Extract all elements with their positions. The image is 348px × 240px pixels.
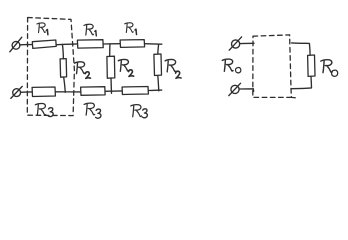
label R1 (section 1): [37, 23, 46, 33]
resistor R1 (section 3, top): [120, 40, 145, 48]
wire Ro bottom to box2: [291, 76, 311, 88]
label R3 (section 3): [131, 105, 142, 117]
wire R1b to R1c (top rail): [103, 43, 120, 45]
wire T4 to dashed box 2: [239, 89, 253, 92]
label R2 (section 1): [75, 62, 85, 74]
wire node B down to R2b: [109, 44, 111, 56]
terminal T4 (bottom-right input): [229, 83, 241, 95]
wire R1a to R1b (top rail): [56, 43, 77, 46]
label R1 (section 2): [84, 24, 94, 35]
label R1 (section 3): [125, 23, 134, 33]
terminal T1 (top-left input): [10, 37, 22, 52]
resistor R1 (section 2, top): [77, 40, 103, 48]
label R3 (section 1): [35, 103, 45, 115]
resistor R2 (section 3, vertical): [154, 54, 162, 76]
wire R3b to R3c (bottom rail): [105, 90, 122, 92]
wire T1 to R1a: [20, 44, 32, 46]
dashed box around section 1: [27, 18, 74, 116]
resistor R1 (section 1, top): [32, 40, 56, 48]
dashed box 2 (equivalent network): [253, 35, 298, 98]
wire box2 to Ro top: [292, 43, 311, 55]
label R2 (section 2): [118, 59, 128, 71]
label Ro (right): [321, 60, 332, 73]
wire node A down to R2a: [62, 44, 63, 58]
wire R3a to R3b (bottom rail): [55, 91, 80, 93]
wire R3c to right end (bottom rail): [148, 89, 161, 91]
wire R2a to bottom rail: [64, 77, 66, 92]
resistor Ro (right, vertical): [308, 55, 315, 76]
label R3 (section 2): [84, 103, 95, 115]
label R2 (section 3): [165, 60, 176, 72]
wire T3 to dashed box 2: [240, 42, 254, 44]
label Ro (input resistance, left): [222, 59, 233, 71]
terminal T2 (bottom-left input): [11, 86, 22, 98]
wire T2 to R3a: [21, 91, 32, 93]
wire R2c to bottom rail: [158, 76, 159, 91]
resistor R3 (section 2, bottom): [81, 87, 106, 96]
resistor R3 (section 1, bottom): [32, 87, 55, 97]
wire right end down to R2c: [157, 44, 160, 54]
resistor R3 (section 3, bottom): [122, 87, 148, 95]
terminal T3 (top-right input): [229, 37, 241, 50]
wire R2b to bottom rail: [110, 78, 113, 93]
resistor R2 (section 1, vertical): [60, 59, 67, 78]
wire R1c to right end (top rail): [145, 43, 162, 46]
resistor R2 (section 2, vertical): [107, 56, 115, 78]
